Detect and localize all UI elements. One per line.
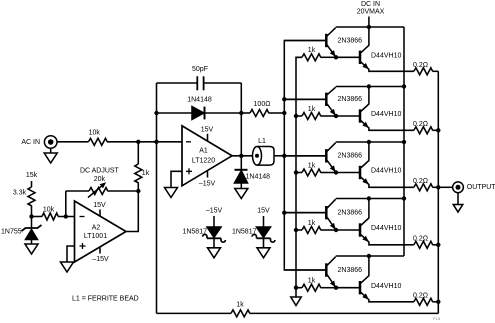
wire drive bus (L1 output to 2N3866 bases) bbox=[284, 41, 325, 271]
svg-text:3.3k: 3.3k bbox=[13, 190, 27, 197]
transistor Q3B D44VH10 (power, row 3) bbox=[336, 172, 359, 174]
ground (below output clamp diode) bbox=[235, 189, 248, 199]
wire A1 non-inverting input to ground bbox=[171, 171, 182, 187]
A2 -15V supply pin bbox=[99, 247, 101, 254]
transistor Q4B D44VH10 (power, row 4) bbox=[336, 229, 359, 231]
svg-text:0.2Ω: 0.2Ω bbox=[413, 235, 428, 242]
ferrite bead L1 bbox=[253, 147, 262, 166]
wire A2 output up to 1k bbox=[126, 191, 138, 232]
svg-text:1N4148: 1N4148 bbox=[246, 174, 271, 181]
svg-text:1k: 1k bbox=[308, 278, 316, 285]
resistor 1k (global feedback) bbox=[231, 310, 250, 317]
svg-text:DC ADJUST: DC ADJUST bbox=[80, 168, 120, 175]
wire collector rail row 3 bbox=[336, 141, 404, 143]
node: Q3A emitter / 1k / Q3B base junction bbox=[334, 170, 338, 174]
wire DC supply bus (right) bbox=[403, 27, 405, 256]
svg-text:15V: 15V bbox=[201, 126, 214, 133]
svg-text:50pF: 50pF bbox=[192, 66, 208, 73]
node: DC bus row3 bbox=[402, 140, 406, 144]
svg-text:A1: A1 bbox=[199, 148, 208, 155]
wire ground bus (1k pulldowns) bbox=[296, 57, 302, 297]
node: drive bus row4 tap bbox=[282, 211, 286, 215]
wire collector rail row 1 bbox=[336, 26, 404, 28]
svg-text:–15V: –15V bbox=[92, 256, 109, 263]
ground (below OUTPUT jack) bbox=[457, 193, 459, 205]
op-amp A2 LT1001 (DC servo) bbox=[75, 201, 127, 262]
svg-text:2N3866: 2N3866 bbox=[338, 267, 363, 274]
node: DC bus row4 bbox=[402, 196, 406, 200]
wire L1 to drive bus / row-3 base bbox=[274, 155, 284, 157]
zener diode 1N755 bbox=[31, 217, 33, 229]
svg-text:L1: L1 bbox=[258, 138, 266, 145]
resistor 0.2 ohm (emitter, row 3) bbox=[414, 184, 433, 191]
diode 1N4148 (feedback) bbox=[157, 112, 193, 114]
node: output bus row3 / OUTPUT tap bbox=[436, 185, 440, 189]
node: output bus row5 bbox=[436, 300, 440, 304]
transistor Q4A 2N3866 (driver, row 4) bbox=[284, 212, 325, 214]
svg-text:D44VH10: D44VH10 bbox=[371, 225, 401, 232]
wire feedback left vertical (A1 inverting node) bbox=[156, 83, 158, 313]
svg-text:10k: 10k bbox=[89, 130, 101, 137]
ground (1k pulldown bus) bbox=[291, 297, 302, 306]
svg-text:D44VH10: D44VH10 bbox=[371, 283, 401, 290]
capacitor 50pF (feedback) bbox=[157, 82, 198, 84]
svg-text:AC IN: AC IN bbox=[21, 139, 40, 146]
node: A1 output junction bbox=[239, 154, 243, 158]
node: output bus row2 bbox=[436, 128, 440, 132]
wire collector rail row 5 bbox=[336, 255, 404, 257]
svg-text:LT1220: LT1220 bbox=[192, 157, 215, 164]
node: feedback right / 100 ohm junction bbox=[239, 111, 243, 115]
ground (A1 + input) bbox=[165, 188, 178, 198]
svg-text:0.2Ω: 0.2Ω bbox=[413, 178, 428, 185]
node: Q5A emitter / 1k / Q5B base junction bbox=[334, 286, 338, 290]
svg-text:1k: 1k bbox=[142, 170, 150, 177]
node: drive bus L1 tap bbox=[282, 154, 286, 158]
node: junction of input line and feedback network bbox=[154, 140, 158, 144]
resistor 0.2 ohm (emitter, row 5) bbox=[414, 298, 433, 305]
svg-text:2N3866: 2N3866 bbox=[338, 153, 363, 160]
svg-text:A2: A2 bbox=[92, 225, 101, 232]
node: D44VH10 Q3B collector / rail junction bbox=[367, 140, 371, 144]
node: zener / 10k / bias-chain junction bbox=[29, 214, 33, 218]
node: ground bus row2 1k bbox=[294, 114, 298, 118]
svg-text:2N3866: 2N3866 bbox=[338, 37, 363, 44]
svg-text:D44VH10: D44VH10 bbox=[371, 53, 401, 60]
connector AC IN input jack bbox=[44, 136, 57, 149]
svg-text:15V: 15V bbox=[257, 208, 270, 215]
svg-text:1k: 1k bbox=[308, 162, 316, 169]
A1 -15V supply pin bbox=[207, 170, 209, 177]
node: D44VH10 Q1B collector / rail junction bbox=[367, 25, 371, 29]
node: ground bus row3 1k bbox=[294, 170, 298, 174]
node: 1N4148 feedback anode bbox=[154, 111, 158, 115]
svg-text:OUTPUT: OUTPUT bbox=[467, 184, 495, 191]
svg-text:2N3866: 2N3866 bbox=[338, 210, 363, 217]
resistor 1k (base pulldown, row 5) bbox=[296, 287, 302, 289]
svg-text:100Ω: 100Ω bbox=[254, 101, 271, 108]
svg-text:0.2Ω: 0.2Ω bbox=[413, 292, 428, 299]
resistor 10k (zener to A2 inverting input) bbox=[32, 216, 43, 218]
ground (below 1N5817 +15V) bbox=[257, 248, 270, 258]
svg-text:1N755: 1N755 bbox=[1, 229, 22, 236]
ground (below 1N5817 -15V) bbox=[208, 248, 221, 258]
svg-text:1k: 1k bbox=[308, 106, 316, 113]
wire collector rail row 4 bbox=[336, 198, 404, 200]
svg-text:D44VH10: D44VH10 bbox=[371, 111, 401, 118]
ground (A2 + input) bbox=[61, 262, 74, 272]
resistor 1k (base pulldown, row 2) bbox=[296, 115, 302, 117]
svg-text:20k: 20k bbox=[94, 176, 106, 183]
resistor 1k (base pulldown, row 4) bbox=[296, 229, 302, 231]
svg-text:1N5817: 1N5817 bbox=[182, 229, 207, 236]
transistor Q5A 2N3866 (driver, row 5) bbox=[284, 269, 325, 271]
node: ground bus row4 1k bbox=[294, 228, 298, 232]
wire A2 non-inverting input to ground bbox=[67, 246, 75, 262]
potentiometer DC ADJUST 20k bbox=[65, 191, 67, 217]
resistor 0.2 ohm (emitter, row 2) bbox=[414, 127, 433, 134]
resistor 0.2 ohm (emitter, row 1) bbox=[414, 68, 433, 75]
node: output bus row4 bbox=[436, 243, 440, 247]
transistor Q3A 2N3866 (driver, row 3) bbox=[284, 155, 325, 157]
resistor 0.2 ohm (emitter, row 4) bbox=[414, 241, 433, 248]
svg-text:L1 = FERRITE BEAD: L1 = FERRITE BEAD bbox=[72, 296, 139, 303]
node: junction of input 10k, 1k from A2 (DC servo) bbox=[136, 140, 140, 144]
ground (below AC IN jack) bbox=[50, 148, 52, 153]
svg-text:LT1001: LT1001 bbox=[84, 233, 107, 240]
transistor Q2B D44VH10 (power, row 2) bbox=[336, 115, 359, 117]
wire global feedback bottom run bbox=[157, 312, 232, 314]
svg-text:15V: 15V bbox=[93, 202, 106, 209]
wire drive bus row2 base bbox=[284, 98, 325, 100]
connector OUTPUT jack bbox=[453, 182, 464, 193]
svg-text:2N3866: 2N3866 bbox=[338, 96, 363, 103]
wire DC IN drop bbox=[368, 17, 370, 28]
node: drive bus 100-ohm tap bbox=[282, 111, 286, 115]
transistor Q1B D44VH10 (power, row 1) bbox=[336, 56, 359, 58]
resistor 100 ohm (feedback to drive bus) bbox=[241, 112, 250, 114]
node: Q2A emitter / 1k / Q2B base junction bbox=[334, 114, 338, 118]
resistor 1k (base pulldown, row 3) bbox=[296, 172, 302, 174]
svg-text:DC IN: DC IN bbox=[361, 1, 380, 8]
svg-text:0.2Ω: 0.2Ω bbox=[413, 62, 428, 69]
svg-text:F13: F13 bbox=[433, 316, 441, 321]
A1 +15V supply pin bbox=[207, 134, 209, 141]
svg-text:1k: 1k bbox=[308, 220, 316, 227]
node: D44VH10 Q5B collector / rail junction bbox=[367, 254, 371, 258]
svg-text:20VMAX: 20VMAX bbox=[357, 9, 385, 16]
wire collector rail row 2 bbox=[336, 86, 404, 88]
transistor Q1A 2N3866 (driver, row 1) bbox=[284, 40, 325, 42]
node: pot / 1k / A2 output junction bbox=[136, 189, 140, 193]
node: ground bus row5 1k bbox=[294, 286, 298, 290]
svg-text:1N5817: 1N5817 bbox=[232, 229, 257, 236]
node: DC bus row2 bbox=[402, 84, 406, 88]
wire drive bus row4 base bbox=[284, 212, 325, 214]
svg-text:–15V: –15V bbox=[199, 180, 216, 187]
wire A1 output to L1 bbox=[232, 155, 253, 157]
node: drive bus row2 tap bbox=[282, 97, 286, 101]
A2 +15V supply pin bbox=[99, 210, 101, 217]
ground (below 1N755) bbox=[25, 244, 38, 254]
svg-text:0.2Ω: 0.2Ω bbox=[413, 121, 428, 128]
resistor 10k (input, AC IN to A1 inverting input) bbox=[57, 141, 89, 143]
diode 1N4148 (output clamp at A1) bbox=[240, 156, 242, 170]
transistor Q2A 2N3866 (driver, row 2) bbox=[284, 98, 325, 100]
svg-text:–15V: –15V bbox=[206, 208, 223, 215]
svg-text:1k: 1k bbox=[236, 301, 244, 308]
svg-text:15k: 15k bbox=[26, 172, 38, 179]
svg-text:10k: 10k bbox=[43, 207, 55, 214]
resistor 1k (base pulldown, row 1) bbox=[296, 56, 302, 58]
transistor Q5B D44VH10 (power, row 5) bbox=[336, 287, 359, 289]
svg-text:D44VH10: D44VH10 bbox=[371, 168, 401, 175]
svg-text:1k: 1k bbox=[308, 47, 316, 54]
op-amp A1 LT1220 bbox=[182, 126, 232, 186]
wire output bus to OUTPUT jack bbox=[438, 186, 452, 188]
node: Q4A emitter / 1k / Q4B base junction bbox=[334, 228, 338, 232]
wire drive bus row3 base bbox=[284, 155, 325, 157]
node: D44VH10 Q4B collector / rail junction bbox=[367, 196, 371, 200]
node: Q1A emitter / 1k / Q1B base junction bbox=[334, 55, 338, 59]
resistor 1k (A2 output to A1 input node) bbox=[137, 142, 139, 164]
node: D44VH10 Q2B collector / rail junction bbox=[367, 84, 371, 88]
wire output bus (0.2 ohm summing) bbox=[437, 71, 439, 313]
wire feedback right vertical bbox=[240, 83, 242, 156]
node: A2 inverting input / DC ADJUST pot junction bbox=[64, 214, 68, 218]
svg-text:1N4148: 1N4148 bbox=[187, 97, 212, 104]
